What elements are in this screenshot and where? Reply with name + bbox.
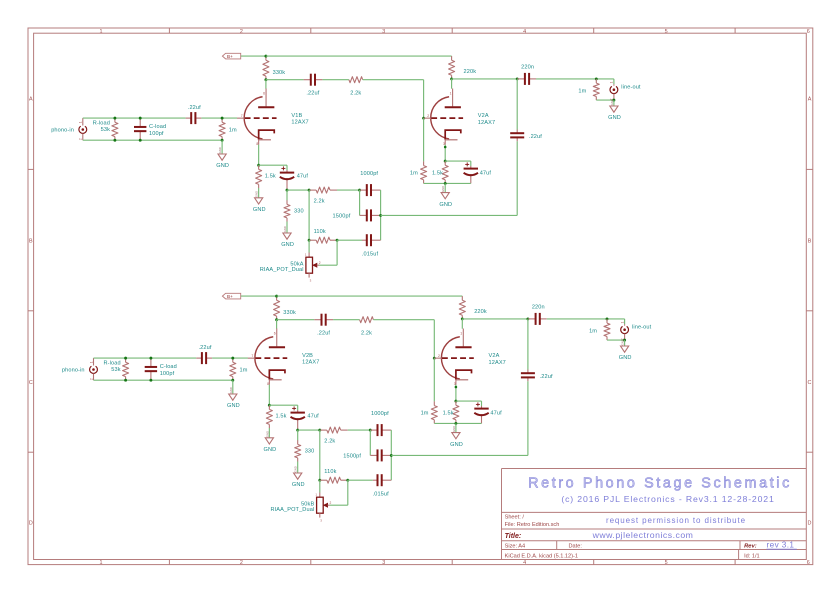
- wire grid node down (right ch): [433, 358, 435, 401]
- node cap ladder left (left ch): [358, 189, 361, 192]
- wire 110k to .015uf (left ch): [337, 239, 362, 241]
- wire to line out (right ch): [547, 318, 625, 320]
- triode V1B envelope arc: [244, 97, 262, 139]
- svg-text:330k: 330k: [283, 310, 296, 316]
- wire 1m to ground (right ch): [232, 380, 234, 394]
- node cathode1 (left ch): [257, 164, 260, 167]
- svg-text:2.2k: 2.2k: [350, 91, 361, 97]
- svg-text:1m: 1m: [229, 128, 237, 134]
- wire grid node down (left ch): [423, 118, 425, 161]
- node R-load top (right ch): [124, 357, 127, 360]
- node second grid (left ch): [422, 117, 425, 120]
- svg-text:3: 3: [382, 560, 385, 566]
- node R-load top (left ch): [113, 117, 116, 120]
- node cathode2 (right ch): [454, 400, 457, 403]
- resistor 1m grid2 (right ch): [433, 401, 435, 405]
- svg-text:Sheet: /: Sheet: /: [505, 515, 525, 521]
- svg-text:GND: GND: [294, 466, 298, 472]
- resistor R-load 53k (left ch): [114, 118, 116, 122]
- svg-text:1: 1: [460, 332, 462, 336]
- svg-text:2: 2: [89, 378, 93, 380]
- svg-text:.22uf: .22uf: [306, 91, 319, 97]
- capacitor 1000pf (left ch): [360, 189, 367, 191]
- svg-text:1500pf: 1500pf: [333, 214, 351, 220]
- wire cathode2 to 47uf (left ch): [445, 160, 471, 162]
- capacitor 47uf cathode bypass1 (right ch): [297, 410, 299, 413]
- svg-text:100pf: 100pf: [149, 131, 164, 137]
- wire input top rail (right ch): [94, 357, 197, 359]
- wire cathode1 down (right ch): [268, 385, 270, 406]
- node 110k right (left ch): [336, 239, 339, 242]
- svg-text:330k: 330k: [273, 70, 286, 76]
- wire 110k to .015uf (right ch): [348, 479, 373, 481]
- svg-text:1: 1: [100, 29, 103, 35]
- svg-text:GND: GND: [255, 191, 259, 197]
- capacitor 220n output coupling (right ch): [528, 318, 536, 320]
- svg-text:12AX7: 12AX7: [302, 360, 319, 366]
- triode V2A grid (dashed): [431, 117, 463, 119]
- svg-text:53k: 53k: [111, 367, 120, 373]
- wire ladder right rail (right ch): [390, 430, 392, 480]
- svg-text:12AX7: 12AX7: [291, 120, 308, 126]
- triode V1B grid (dashed): [245, 117, 277, 119]
- wire riaa mid vertical (right ch): [319, 430, 321, 480]
- wire down to line-out jack (left ch): [613, 79, 615, 84]
- capacitor 1000pf (right ch): [370, 429, 377, 431]
- node R-load bottom (right ch): [124, 379, 127, 382]
- svg-text:R-load: R-load: [93, 120, 110, 126]
- wire 2.2k to grid drop (left ch): [363, 79, 424, 81]
- capacitor .015uf (right ch): [373, 479, 378, 481]
- resistor 2.2k grid stopper (right ch): [359, 319, 361, 321]
- triode V2A plate bar: [445, 106, 461, 108]
- svg-text:GND: GND: [439, 202, 452, 208]
- svg-text:line-out: line-out: [621, 85, 641, 91]
- svg-text:1.5k: 1.5k: [276, 413, 287, 419]
- capacitor 47uf cathode bypass1 (left ch): [286, 170, 288, 173]
- global label B+: [222, 293, 240, 299]
- node jack ground (left ch): [612, 99, 615, 102]
- svg-text:GND: GND: [441, 186, 445, 192]
- resistor 1m output load (left ch): [595, 79, 597, 83]
- svg-text:1m: 1m: [421, 411, 429, 417]
- svg-text:110k: 110k: [314, 229, 326, 235]
- svg-text:phono-in: phono-in: [51, 128, 74, 134]
- wire input top rail (left ch): [83, 117, 186, 119]
- svg-text:1m: 1m: [410, 171, 418, 177]
- svg-text:1m: 1m: [589, 328, 597, 334]
- wire jack to gnd (left ch): [613, 100, 615, 106]
- triode V2B envelope arc: [255, 337, 273, 379]
- svg-text:2: 2: [330, 501, 332, 505]
- svg-text:V1B: V1B: [291, 113, 302, 119]
- svg-text:GND: GND: [227, 403, 240, 409]
- triode V2B anode (plate) pin: [276, 329, 278, 347]
- resistor 2.2k grid stopper (left ch): [348, 79, 350, 81]
- svg-text:330: 330: [305, 449, 315, 455]
- node B+ / 330k top (right ch): [275, 295, 278, 298]
- svg-text:D: D: [29, 521, 33, 527]
- node riaa tee (left ch): [308, 189, 311, 192]
- wire pot top feed (left ch): [308, 240, 310, 252]
- wire down to line-out jack (right ch): [624, 319, 626, 324]
- wire jack to gnd (right ch): [624, 340, 626, 346]
- wire ladder left rail (left ch): [359, 190, 361, 215]
- svg-text:1.5k: 1.5k: [443, 411, 454, 417]
- resistor 1.5k cathode1 (left ch): [258, 165, 260, 169]
- triode V2A anode (plate) pin: [452, 89, 454, 107]
- wire output cap up (left ch): [516, 79, 518, 130]
- svg-text:1m: 1m: [578, 88, 586, 94]
- svg-text:1: 1: [610, 81, 614, 83]
- svg-text:request permission to distribu: request permission to distribute: [606, 516, 746, 525]
- node cathode2 gnd (right ch): [454, 422, 457, 425]
- svg-text:R-load: R-load: [103, 360, 120, 366]
- wire anode2 to output cap (left ch): [452, 78, 518, 80]
- resistor 330k plate load (left ch): [265, 56, 267, 60]
- svg-text:GND: GND: [216, 163, 229, 169]
- capacitor .22uf feedback (left ch): [516, 130, 518, 134]
- triode V1B anode (plate) pin: [265, 89, 267, 107]
- triode V2A cathode pin: [444, 140, 446, 145]
- wire anode feed (left ch): [265, 80, 267, 89]
- svg-text:.22uf: .22uf: [188, 105, 201, 111]
- svg-text:V2B: V2B: [302, 353, 313, 359]
- svg-text:5: 5: [665, 29, 668, 35]
- svg-text:.22uf: .22uf: [540, 374, 553, 380]
- svg-text:GND: GND: [610, 99, 614, 105]
- node 110k left (left ch): [308, 239, 311, 242]
- wire riaa node right (right ch): [298, 429, 320, 431]
- capacitor C-load 100pf (left ch): [139, 118, 141, 127]
- wire cathode1 to 47uf (right ch): [269, 404, 297, 406]
- capacitor 1500pf (right ch): [370, 454, 377, 456]
- wire cathode2 bottom rail (left ch): [424, 182, 471, 184]
- node cathode2 (left ch): [444, 160, 447, 163]
- svg-text:Rev:: Rev:: [744, 544, 757, 550]
- triode V1B cathode pin: [258, 140, 260, 145]
- svg-text:4: 4: [523, 29, 526, 35]
- node second grid (right ch): [433, 357, 436, 360]
- node cap ladder left (right ch): [369, 429, 372, 432]
- svg-text:A: A: [29, 97, 33, 103]
- wire ladder left rail (right ch): [369, 430, 371, 455]
- wire cathode2 down (right ch): [455, 385, 457, 402]
- svg-text:47uf: 47uf: [490, 411, 502, 417]
- svg-text:Id: 1/1: Id: 1/1: [744, 553, 760, 559]
- wire anode2 feed (left ch): [451, 79, 453, 89]
- wire B+ to rail (left ch): [241, 55, 266, 57]
- resistor 1m grid leak (right ch): [232, 358, 234, 362]
- svg-text:6: 6: [274, 332, 276, 336]
- svg-text:220n: 220n: [521, 64, 534, 70]
- node 1m top (left ch): [221, 117, 224, 120]
- capacitor 47uf cathode bypass2 (right ch): [481, 406, 483, 409]
- svg-text:B+: B+: [227, 294, 233, 299]
- svg-text:GND: GND: [621, 339, 625, 345]
- svg-text:1: 1: [79, 121, 83, 123]
- svg-text:1m: 1m: [240, 368, 248, 374]
- svg-text:6: 6: [807, 29, 810, 35]
- wire cathode1 down (left ch): [258, 145, 260, 166]
- wire ladder right rail (left ch): [380, 190, 382, 240]
- svg-text:2.2k: 2.2k: [314, 199, 325, 205]
- wire cap to grid (left ch): [201, 117, 237, 119]
- node 330k bottom / anode (right ch): [275, 318, 278, 321]
- wire 330 to gnd (left ch): [286, 222, 288, 234]
- global label B+: [222, 53, 240, 59]
- svg-text:B: B: [808, 239, 812, 245]
- svg-text:220n: 220n: [532, 304, 545, 310]
- svg-text:.22uf: .22uf: [529, 134, 542, 140]
- wire 2.2k riaa out (left ch): [337, 189, 360, 191]
- wire cap to 2.2k (left ch): [322, 79, 349, 81]
- node 1m bottom (right ch): [231, 379, 234, 382]
- wire to gnd2 (left ch): [444, 183, 446, 192]
- wire pot wiper link (right ch): [330, 504, 348, 506]
- triode V2B cathode pin: [268, 380, 270, 385]
- title block outline: [502, 468, 807, 470]
- svg-text:100pf: 100pf: [160, 371, 175, 377]
- triode V2A envelope arc: [441, 337, 459, 379]
- svg-text:2: 2: [240, 29, 243, 35]
- node 1m out top (right ch): [606, 317, 609, 320]
- node jack ground (right ch): [623, 339, 626, 342]
- wire cathode2 bottom rail (right ch): [434, 422, 481, 424]
- svg-text:B: B: [29, 239, 33, 245]
- title block row lines: [502, 511, 807, 513]
- wire anode feed (right ch): [276, 320, 278, 329]
- resistor 2.2k riaa (right ch): [320, 429, 327, 431]
- node cathode1 (right ch): [268, 404, 271, 407]
- svg-text:2: 2: [240, 560, 243, 566]
- wire cathode2 to 47uf (right ch): [456, 400, 482, 402]
- node ladder right (right ch): [390, 454, 393, 457]
- wire cathode1 to 47uf (left ch): [259, 164, 287, 166]
- node C-load bottom (right ch): [149, 379, 152, 382]
- wire anode2 to output cap (right ch): [462, 318, 528, 320]
- node C-load top (left ch): [139, 117, 142, 120]
- svg-text:GND: GND: [292, 482, 305, 488]
- svg-text:GND: GND: [264, 447, 277, 453]
- wire plate to coupling cap (left ch): [266, 79, 304, 81]
- capacitor .22uf interstage (right ch): [314, 319, 321, 321]
- svg-text:1000pf: 1000pf: [371, 411, 389, 417]
- svg-text:GND: GND: [608, 115, 621, 121]
- capacitor .015uf (left ch): [362, 239, 367, 241]
- svg-text:GND: GND: [452, 426, 456, 432]
- connector J phono-in (left ch): [82, 118, 84, 125]
- node C-load bottom (left ch): [139, 139, 142, 142]
- resistor 110k (left ch): [309, 239, 316, 241]
- svg-text:1000pf: 1000pf: [360, 171, 378, 177]
- svg-text:2: 2: [79, 138, 83, 140]
- wire input bottom rail (left ch): [83, 139, 222, 141]
- svg-text:Date:: Date:: [569, 544, 583, 550]
- wire 1m bottom to jack ground (left ch): [596, 99, 614, 101]
- resistor 1m grid leak (left ch): [221, 118, 223, 122]
- wire 1m bottom to jack ground (right ch): [607, 339, 625, 341]
- wire B+ rail to second stage (right ch): [277, 295, 463, 297]
- svg-text:GND: GND: [229, 387, 233, 393]
- svg-text:GND: GND: [253, 207, 266, 213]
- triode V1B grid pin: [237, 117, 245, 119]
- wire to gnd2 (right ch): [455, 423, 457, 432]
- resistor 330 (right ch): [297, 430, 299, 440]
- wire riaa mid vertical (left ch): [308, 190, 310, 240]
- triode V2B cathode: [269, 370, 285, 380]
- node cathode2 gnd (left ch): [444, 182, 447, 185]
- svg-text:53k: 53k: [101, 127, 110, 133]
- capacitor 47uf cathode bypass2 (left ch): [470, 166, 472, 169]
- node RIAA top (right ch): [296, 429, 299, 432]
- svg-text:2.2k: 2.2k: [361, 331, 372, 337]
- svg-text:.22uf: .22uf: [198, 345, 211, 351]
- node R-load bottom (left ch): [113, 139, 116, 142]
- svg-text:B+: B+: [227, 54, 233, 59]
- svg-text:Retro Phono Stage Schematic: Retro Phono Stage Schematic: [528, 475, 792, 491]
- node C-load top (right ch): [149, 357, 152, 360]
- triode V2A grid pin: [424, 117, 432, 119]
- svg-text:C: C: [29, 380, 33, 386]
- wire 1.5k to gnd (right ch): [268, 428, 270, 438]
- node RIAA top (left ch): [286, 189, 289, 192]
- svg-text:2: 2: [427, 114, 429, 118]
- svg-text:line-out: line-out: [632, 325, 652, 331]
- wire riaa to output cap (left ch): [381, 214, 518, 216]
- svg-text:phono-in: phono-in: [62, 368, 85, 374]
- node 220k bottom / anode2 (left ch): [450, 77, 453, 80]
- svg-text:D: D: [808, 521, 812, 527]
- svg-text:V2A: V2A: [489, 353, 500, 359]
- svg-text:C: C: [808, 380, 812, 386]
- svg-text:1: 1: [450, 92, 452, 96]
- svg-text:220k: 220k: [464, 69, 477, 75]
- triode V2A grid pin: [434, 357, 442, 359]
- border column/row ticks: [168, 28, 170, 33]
- svg-text:.22uf: .22uf: [317, 331, 330, 337]
- wire cap to grid (right ch): [212, 357, 248, 359]
- wire input bottom rail (right ch): [94, 379, 233, 381]
- triode V2A cathode: [445, 130, 461, 140]
- wire 2.2k to grid drop (right ch): [373, 319, 434, 321]
- svg-text:Size: A4: Size: A4: [505, 544, 526, 550]
- title block column dividers: [556, 541, 558, 550]
- triode V2A anode (plate) pin: [462, 329, 464, 347]
- triode V2A grid (dashed): [442, 357, 474, 359]
- node 110k right (right ch): [346, 479, 349, 482]
- wire cap to 2.2k (right ch): [333, 319, 360, 321]
- resistor 1m grid2 (left ch): [423, 161, 425, 165]
- svg-text:.015uf: .015uf: [373, 491, 390, 497]
- svg-text:12AX7: 12AX7: [489, 360, 506, 366]
- svg-text:File: Retro Edition.sch: File: Retro Edition.sch: [505, 522, 560, 528]
- svg-text:1: 1: [620, 321, 624, 323]
- capacitor 1500pf (left ch): [360, 214, 367, 216]
- node 110k left (right ch): [318, 479, 321, 482]
- svg-text:RIAA_POT_Dual: RIAA_POT_Dual: [270, 507, 314, 513]
- svg-text:Title:: Title:: [505, 533, 522, 540]
- resistor 2.2k riaa (left ch): [309, 189, 316, 191]
- wire 1.5k to gnd (left ch): [258, 188, 260, 198]
- svg-text:V2A: V2A: [478, 113, 489, 119]
- resistor 1.5k cathode1 (right ch): [268, 405, 270, 409]
- node 1m top (right ch): [231, 357, 234, 360]
- capacitor .22uf interstage (left ch): [304, 79, 311, 81]
- resistor 330 (left ch): [286, 190, 288, 200]
- wire to line out (left ch): [536, 78, 614, 80]
- svg-text:6: 6: [263, 92, 265, 96]
- svg-text:GND: GND: [281, 242, 294, 248]
- svg-text:GND: GND: [218, 147, 222, 153]
- svg-text:330: 330: [294, 209, 304, 215]
- resistor 330k plate load (right ch): [276, 296, 278, 300]
- resistor 1.5k cathode2 (right ch): [455, 401, 457, 405]
- svg-text:GND: GND: [283, 226, 287, 232]
- node riaa tee (right ch): [318, 429, 321, 432]
- wire B+ to rail (right ch): [241, 295, 277, 297]
- triode V1B plate bar: [258, 106, 274, 108]
- node output tee (left ch): [516, 77, 519, 80]
- svg-text:3: 3: [382, 29, 385, 35]
- wire anode2 feed (right ch): [461, 319, 463, 329]
- triode V2B grid pin: [248, 357, 256, 359]
- svg-text:7: 7: [241, 114, 243, 118]
- node 1m out top (left ch): [595, 77, 598, 80]
- resistor 220k plate load (left ch): [451, 56, 453, 60]
- triode V2A cathode pin: [455, 380, 457, 385]
- svg-text:47uf: 47uf: [297, 173, 309, 179]
- node ladder right (left ch): [379, 214, 382, 217]
- connector J line-out (right ch): [624, 324, 626, 326]
- wire 330 to gnd (right ch): [297, 462, 299, 474]
- svg-text:7: 7: [251, 354, 253, 358]
- resistor 220k plate load (right ch): [461, 296, 463, 300]
- capacitor .22uf input coupling (left ch): [186, 117, 192, 119]
- wire plate to coupling cap (right ch): [277, 319, 315, 321]
- svg-text:KiCad E.D.A. kicad (5.1.12)-1: KiCad E.D.A. kicad (5.1.12)-1: [505, 553, 578, 559]
- svg-text:6: 6: [807, 560, 810, 566]
- svg-text:GND: GND: [265, 431, 269, 437]
- node 330k bottom / anode (left ch): [264, 78, 267, 81]
- svg-text:2.2k: 2.2k: [324, 439, 335, 445]
- wire cathode2 down (left ch): [444, 145, 446, 162]
- svg-text:47uf: 47uf: [307, 413, 319, 419]
- svg-text:.015uf: .015uf: [362, 251, 379, 257]
- capacitor C-load 100pf (right ch): [150, 358, 152, 367]
- svg-text:GND: GND: [450, 442, 463, 448]
- triode V2A envelope arc: [431, 97, 449, 139]
- connector J line-out (left ch): [613, 84, 615, 86]
- svg-text:(c) 2016 PJL Electronics - Rev: (c) 2016 PJL Electronics - Rev3.1 12-28-…: [561, 494, 774, 504]
- svg-text:110k: 110k: [324, 469, 336, 475]
- triode V2B plate bar: [269, 346, 285, 348]
- capacitor .22uf input coupling (right ch): [196, 357, 202, 359]
- capacitor .22uf feedback (right ch): [527, 370, 529, 374]
- node 220k bottom / anode2 (right ch): [461, 317, 464, 320]
- svg-text:4: 4: [523, 560, 526, 566]
- wire 2.2k riaa out (right ch): [348, 429, 371, 431]
- wire riaa node right (left ch): [287, 189, 309, 191]
- svg-text:12AX7: 12AX7: [478, 120, 495, 126]
- capacitor 220n output coupling (left ch): [517, 78, 525, 80]
- wire pot top feed (right ch): [319, 480, 321, 492]
- potentiometer RIAA_POT_Dual 50kA (left ch): [308, 253, 310, 258]
- svg-text:2: 2: [438, 354, 440, 358]
- svg-text:A: A: [808, 97, 812, 103]
- triode V1B cathode: [259, 130, 275, 140]
- resistor 110k (right ch): [320, 479, 327, 481]
